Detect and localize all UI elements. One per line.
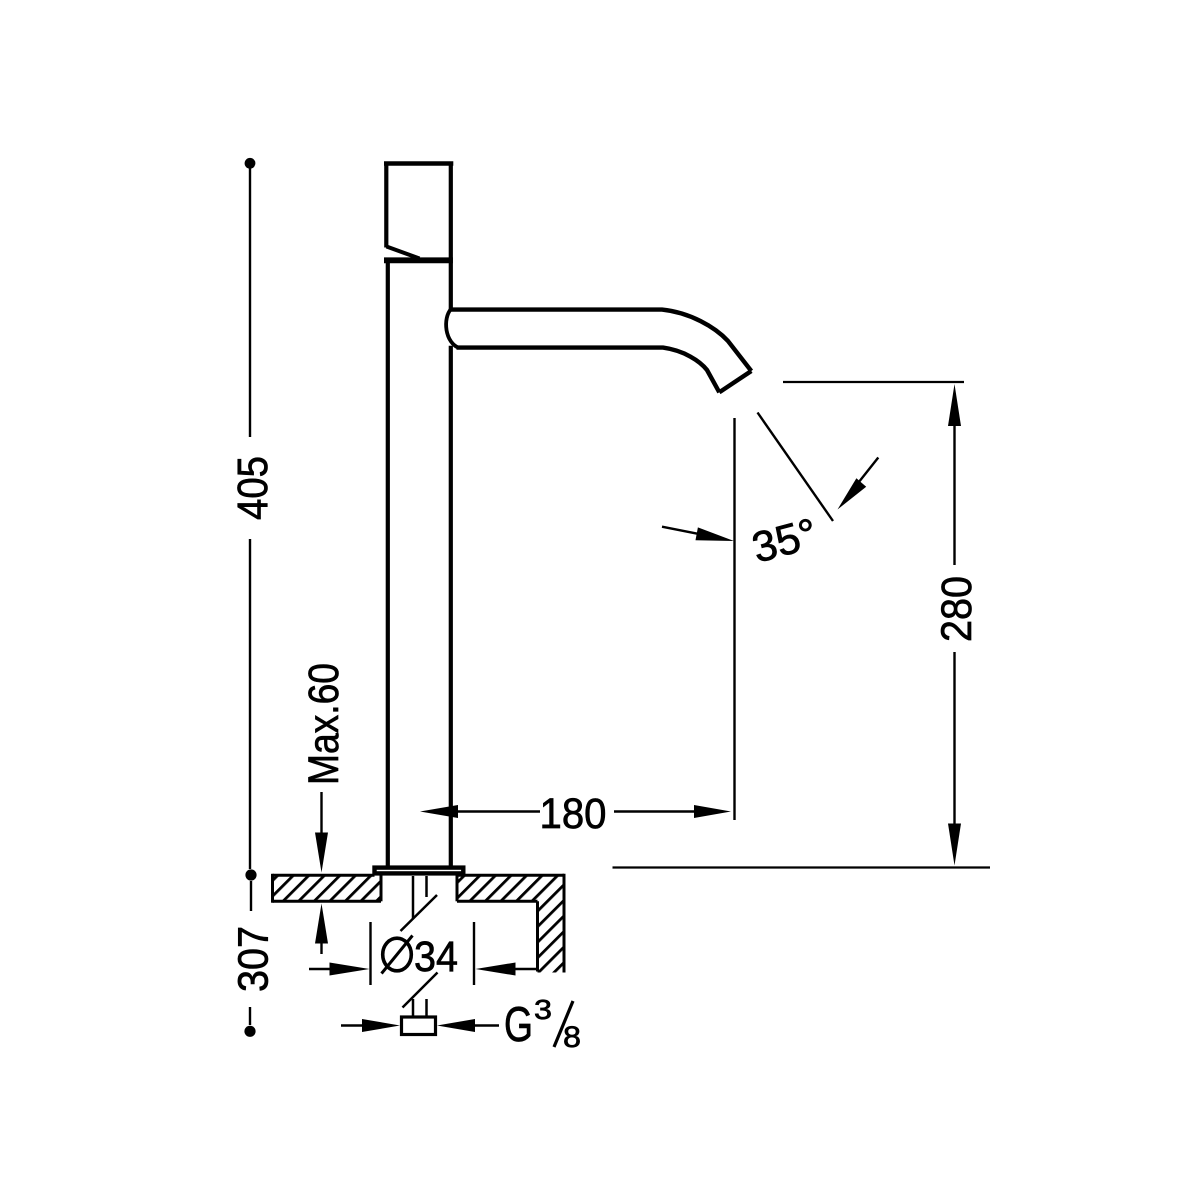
svg-text:180: 180 — [540, 790, 607, 838]
svg-text:34: 34 — [414, 933, 458, 981]
svg-text:G: G — [504, 998, 533, 1052]
svg-text:8: 8 — [563, 1021, 581, 1054]
svg-text:3: 3 — [534, 994, 552, 1025]
svg-text:Max.60: Max.60 — [300, 663, 348, 785]
svg-text:405: 405 — [229, 456, 277, 520]
svg-text:280: 280 — [933, 576, 981, 642]
svg-text:307: 307 — [230, 926, 278, 992]
